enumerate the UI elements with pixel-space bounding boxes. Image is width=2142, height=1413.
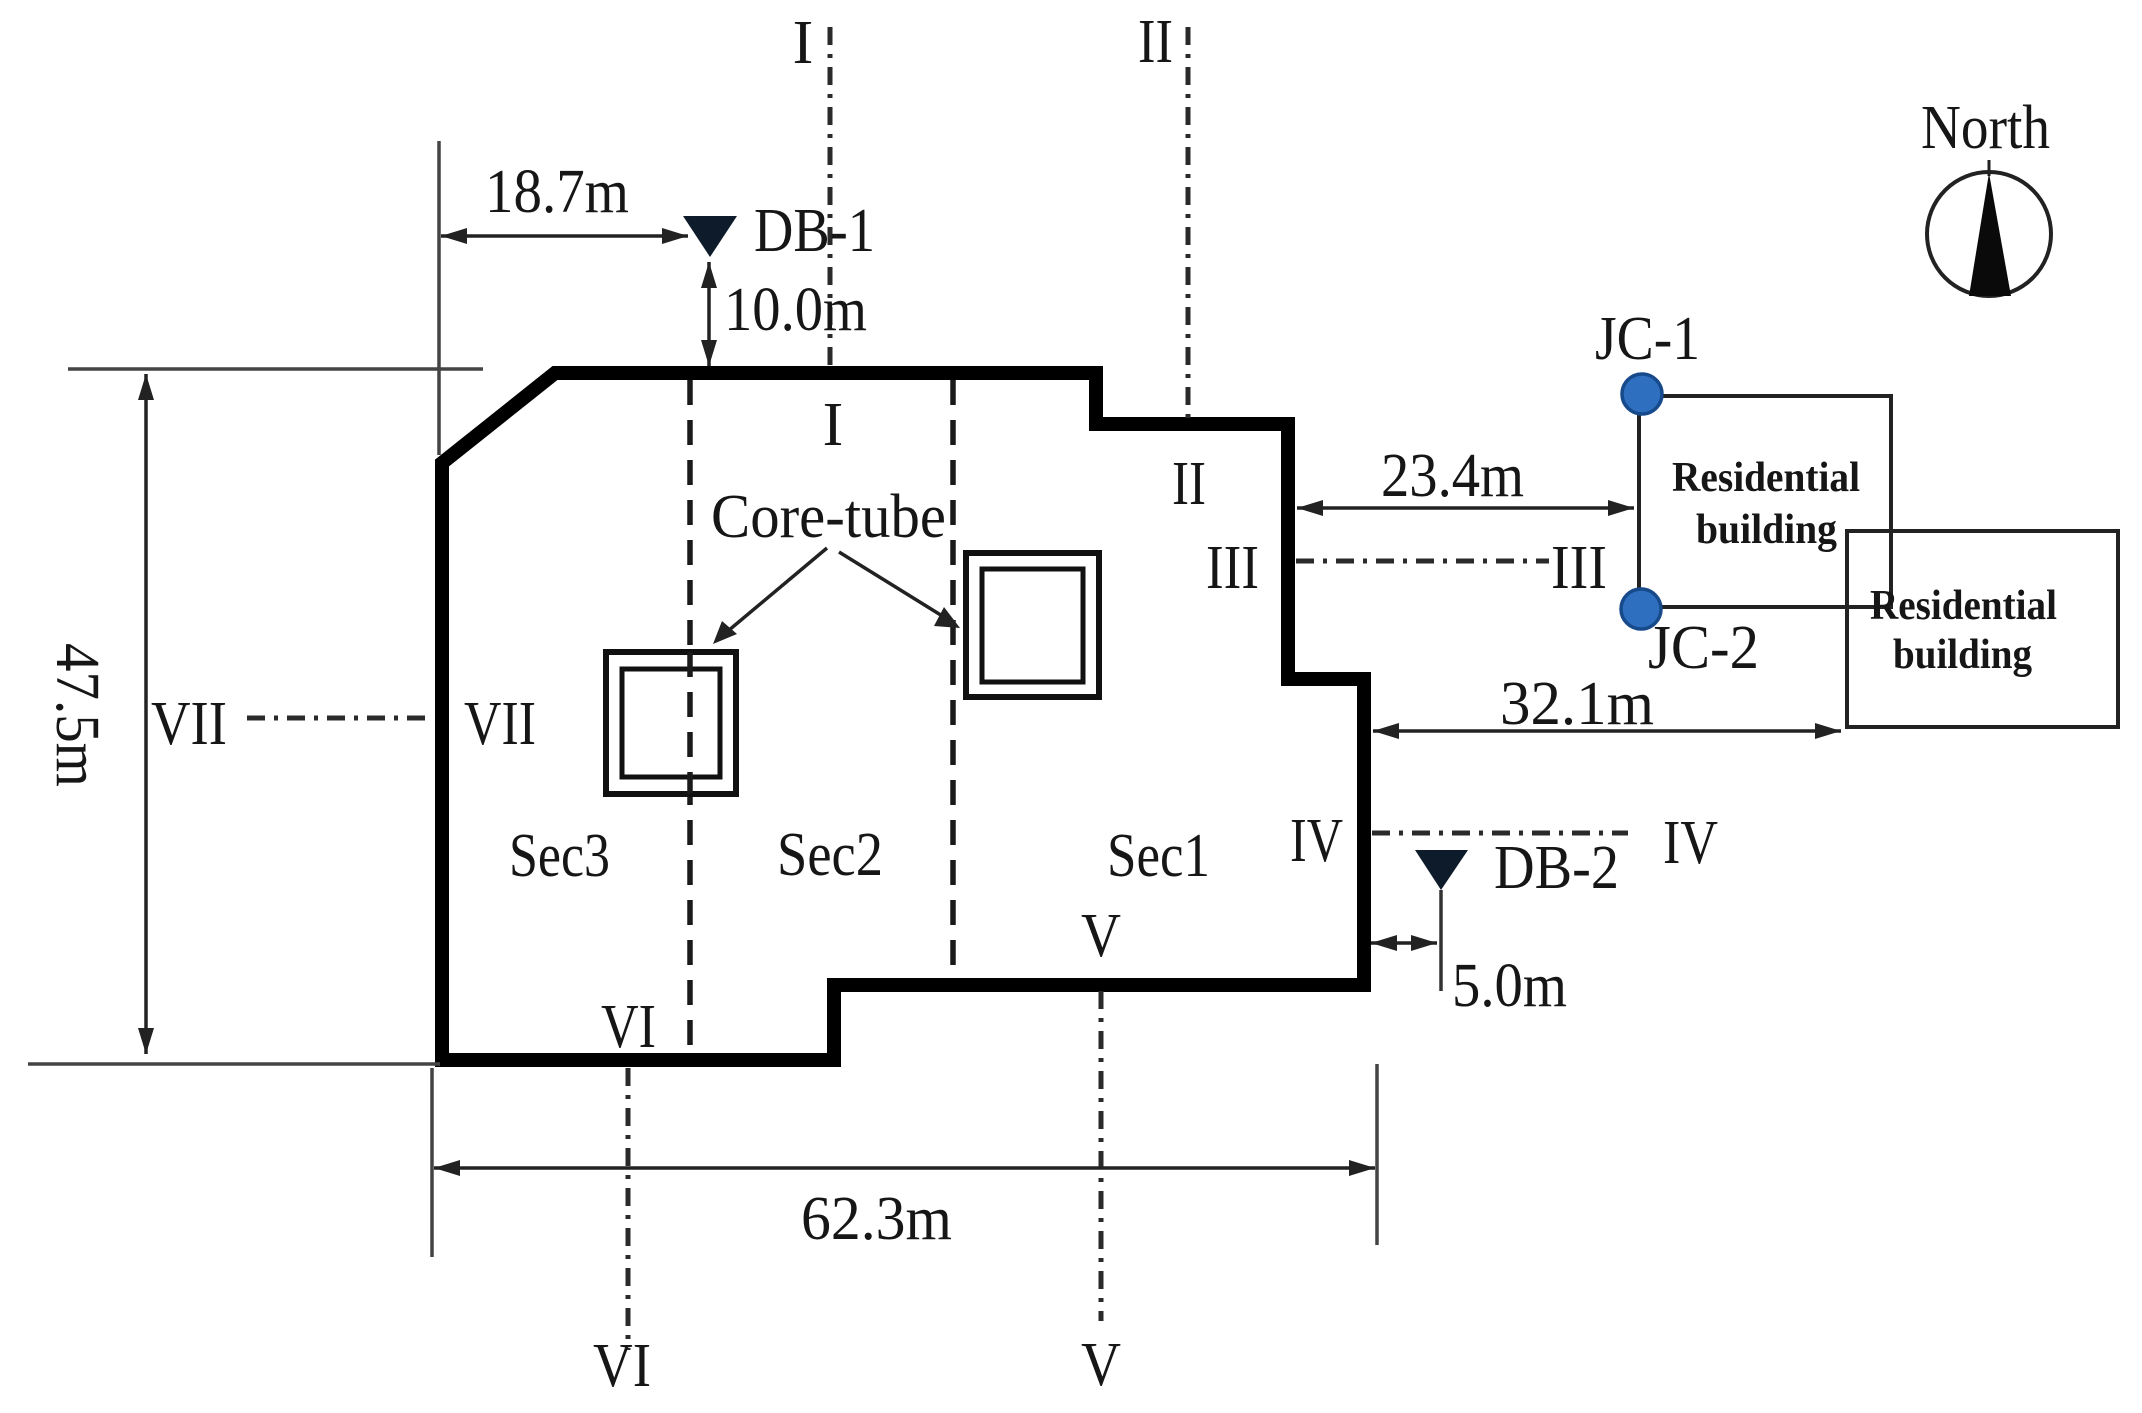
svg-text:Sec3: Sec3 bbox=[509, 822, 610, 890]
svg-text:47.5m: 47.5m bbox=[43, 643, 111, 787]
core-tube left outer bbox=[606, 652, 736, 794]
leader arrow to left core-tube bbox=[722, 548, 827, 636]
62.3m extension lines bbox=[430, 1068, 434, 1257]
DB-1 marker bbox=[683, 216, 737, 257]
svg-text:DB-1: DB-1 bbox=[754, 197, 875, 265]
svg-text:DB-2: DB-2 bbox=[1494, 834, 1619, 902]
JC-1 marker bbox=[1622, 374, 1662, 414]
section line V (dash-dot vertical) bbox=[1099, 991, 1104, 1321]
svg-text:IV: IV bbox=[1663, 809, 1718, 877]
svg-text:32.1m: 32.1m bbox=[1500, 670, 1654, 738]
svg-text:I: I bbox=[823, 391, 844, 459]
svg-text:JC-2: JC-2 bbox=[1648, 614, 1759, 682]
62.3m dimension bbox=[434, 1166, 1375, 1170]
leader arrow to right core-tube bbox=[839, 552, 952, 622]
svg-text:V: V bbox=[1081, 902, 1121, 970]
svg-text:Core-tube: Core-tube bbox=[711, 483, 946, 551]
section line III (dash-dot horizontal) bbox=[1296, 559, 1549, 564]
svg-text:18.7m: 18.7m bbox=[485, 158, 629, 226]
core-tube left inner bbox=[622, 669, 720, 777]
core-tube right inner bbox=[982, 569, 1083, 682]
JC-2 marker bbox=[1621, 589, 1661, 629]
18.7m dimension bbox=[441, 234, 688, 238]
residential building box 2 bbox=[1847, 531, 2118, 727]
svg-text:VI: VI bbox=[601, 993, 656, 1061]
section line II (dash-dot vertical) bbox=[1186, 27, 1191, 420]
svg-text:JC-1: JC-1 bbox=[1595, 305, 1700, 373]
47.5m dimension bbox=[144, 374, 148, 1054]
svg-text:II: II bbox=[1172, 450, 1206, 518]
47.5m extension lines bbox=[68, 367, 483, 371]
JC connector line bbox=[1637, 394, 1641, 609]
svg-text:Residential: Residential bbox=[1672, 455, 1860, 501]
svg-text:III: III bbox=[1551, 534, 1607, 602]
building outline (tower plan) bbox=[442, 373, 1364, 1060]
svg-text:23.4m: 23.4m bbox=[1381, 442, 1524, 510]
svg-text:Sec2: Sec2 bbox=[777, 821, 883, 889]
svg-text:5.0m: 5.0m bbox=[1452, 952, 1567, 1020]
svg-text:V: V bbox=[1081, 1331, 1121, 1399]
svg-text:VII: VII bbox=[151, 690, 227, 758]
section line I (dash-dot vertical) bbox=[828, 27, 833, 368]
18.7m extension line bbox=[437, 141, 441, 455]
svg-text:building: building bbox=[1696, 507, 1837, 553]
svg-text:10.0m: 10.0m bbox=[724, 276, 867, 344]
svg-text:Sec1: Sec1 bbox=[1107, 822, 1210, 890]
svg-text:II: II bbox=[1138, 8, 1173, 76]
svg-text:I: I bbox=[793, 9, 814, 77]
section line VI (dash-dot vertical) bbox=[626, 1068, 631, 1350]
section divider Sec3/Sec2 (dashed) bbox=[687, 380, 693, 1053]
svg-text:III: III bbox=[1206, 534, 1259, 602]
core-tube right outer bbox=[966, 553, 1099, 697]
svg-text:VI: VI bbox=[593, 1332, 651, 1400]
residential building box 1 bbox=[1639, 396, 1891, 607]
DB-2 marker bbox=[1415, 850, 1468, 890]
svg-text:Residential: Residential bbox=[1870, 583, 2057, 629]
svg-text:building: building bbox=[1893, 632, 2032, 678]
svg-text:62.3m: 62.3m bbox=[801, 1185, 952, 1253]
section line IV (dash-dot horizontal) bbox=[1372, 831, 1628, 836]
section line VII (dash-dot horizontal) bbox=[247, 716, 429, 721]
10.0m dimension bbox=[707, 262, 711, 366]
5.0m dimension bbox=[1371, 941, 1437, 945]
dashed divider over left core-tube bbox=[687, 652, 693, 794]
svg-text:VII: VII bbox=[464, 690, 536, 758]
section divider Sec2/Sec1 (dashed) bbox=[950, 380, 956, 978]
23.4m dimension bbox=[1297, 506, 1634, 510]
svg-text:North: North bbox=[1921, 94, 2050, 162]
svg-text:IV: IV bbox=[1290, 807, 1343, 875]
32.1m dimension bbox=[1373, 729, 1841, 733]
